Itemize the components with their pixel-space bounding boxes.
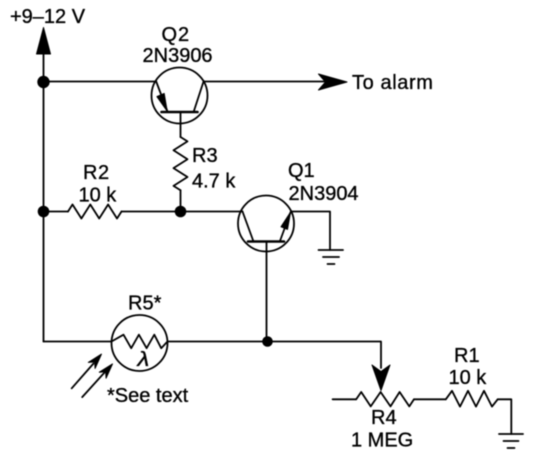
svg-text:*See text: *See text — [107, 385, 189, 407]
label R3 — [192, 145, 218, 167]
svg-text:+9–12 V: +9–12 V — [10, 6, 86, 28]
label R2 — [83, 162, 110, 184]
label *See text — [107, 385, 189, 407]
svg-text:4.7 k: 4.7 k — [192, 171, 236, 193]
svg-text:λ: λ — [136, 348, 149, 371]
svg-text:R2: R2 — [83, 162, 110, 184]
potentiometer R4 — [333, 392, 414, 406]
ground (Q1 emitter) — [319, 250, 344, 264]
wire rail bottom to R5 — [44, 341, 112, 343]
label 10 k — [79, 185, 118, 207]
transistor Q2 — [152, 68, 208, 138]
photocell R5 — [112, 315, 168, 371]
node left rail R2 junction — [38, 206, 50, 218]
node V+ label — [10, 6, 86, 28]
wire R5 to bottom junction — [168, 341, 268, 343]
svg-text:Q1: Q1 — [288, 160, 315, 182]
transistor Q1 — [238, 196, 294, 342]
node R3/R2/Q1 base junction — [175, 206, 187, 218]
wire R1 to ground — [498, 399, 512, 434]
light arrow 1 — [72, 354, 102, 388]
label 4.7 k — [192, 171, 236, 193]
light arrow 2 — [82, 364, 112, 397]
node Q1 base / divider junction — [262, 336, 273, 347]
svg-text:R3: R3 — [192, 145, 218, 167]
resistor R3 — [174, 137, 188, 212]
label 2N3906 — [143, 45, 213, 67]
resistor R2 — [68, 205, 122, 219]
label Q2 — [162, 24, 191, 46]
svg-text:1 MEG: 1 MEG — [351, 430, 413, 452]
label R1 — [454, 345, 480, 367]
svg-text:R4: R4 — [371, 407, 397, 429]
wire Q1 emitter to ground — [291, 212, 330, 251]
wire top rail to Q2 — [44, 81, 157, 83]
svg-text:2N3906: 2N3906 — [143, 45, 213, 67]
ground (R1) — [499, 434, 523, 448]
svg-text:R1: R1 — [454, 345, 480, 367]
wire R4 to R1 — [414, 398, 446, 400]
label To alarm — [352, 72, 434, 94]
label 2N3904 — [289, 183, 359, 205]
label 1 MEG — [351, 430, 413, 452]
To alarm arrowhead — [319, 74, 348, 90]
label 10 k (R1) — [449, 367, 488, 389]
svg-text:R5*: R5* — [128, 293, 162, 315]
wiper arrowhead R4 — [372, 365, 390, 391]
power arrow — [37, 28, 51, 83]
label R5* — [128, 293, 162, 315]
wire Q2 collector to alarm — [204, 81, 327, 83]
wire R2 to Q1 — [122, 211, 243, 213]
wire junction to wiper — [268, 342, 382, 369]
svg-text:2N3904: 2N3904 — [289, 183, 359, 205]
wire left rail — [43, 82, 45, 342]
wire rail to R2 — [44, 211, 69, 213]
svg-text:10 k: 10 k — [79, 185, 118, 207]
svg-text:10 k: 10 k — [449, 367, 488, 389]
label Q1 — [288, 160, 315, 182]
node supply junction — [37, 76, 49, 88]
label R4 — [371, 407, 397, 429]
svg-text:To alarm: To alarm — [352, 72, 434, 94]
svg-text:Q2: Q2 — [162, 24, 191, 46]
resistor R1 — [446, 391, 498, 407]
